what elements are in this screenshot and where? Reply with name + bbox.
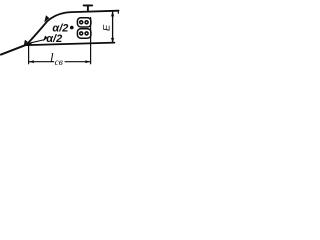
wire bead-surface curve <box>27 12 81 45</box>
svg-text:l: l <box>50 49 54 64</box>
arrowhead dimension l_sv left <box>29 60 34 63</box>
arrowhead lower angle leader <box>43 36 48 42</box>
roller circle box1 right <box>85 21 88 24</box>
electrode T symbol stem <box>87 6 89 12</box>
label l_sv white backing <box>54 56 64 65</box>
dimension l_sv right extension line <box>90 18 92 64</box>
svg-text:E: E <box>102 24 113 31</box>
roller circle box2 right <box>85 32 88 35</box>
electrode T symbol bar <box>84 4 93 6</box>
roller circle box2 left <box>80 32 83 35</box>
svg-text:св: св <box>55 58 63 68</box>
arrowhead dimension E bottom <box>111 38 114 43</box>
arrowhead dimension E top <box>111 11 114 16</box>
arrowhead on curve (upper angle) <box>44 15 49 22</box>
wire lead-in line (lower-left sloped line) <box>1 45 27 55</box>
wire plateau / top extension line <box>80 11 119 12</box>
dimension l_sv left extension line <box>28 45 30 64</box>
wire base line <box>27 43 115 46</box>
wire leader of lower angle label <box>31 40 45 43</box>
wire plateau end tick <box>117 11 119 14</box>
dimension l_sv line <box>29 61 91 63</box>
arrowhead base line left end <box>27 42 32 45</box>
roller box 2 <box>77 29 91 39</box>
arrowhead dimension l_sv right <box>85 60 90 63</box>
dimension E line <box>112 11 114 43</box>
node dot right of upper label <box>70 26 74 30</box>
background <box>0 0 120 74</box>
roller circle box1 left <box>80 21 83 24</box>
roller box 1 <box>77 18 91 27</box>
arrowhead at weld start junction <box>24 40 28 47</box>
svg-text:α/2: α/2 <box>46 33 62 45</box>
